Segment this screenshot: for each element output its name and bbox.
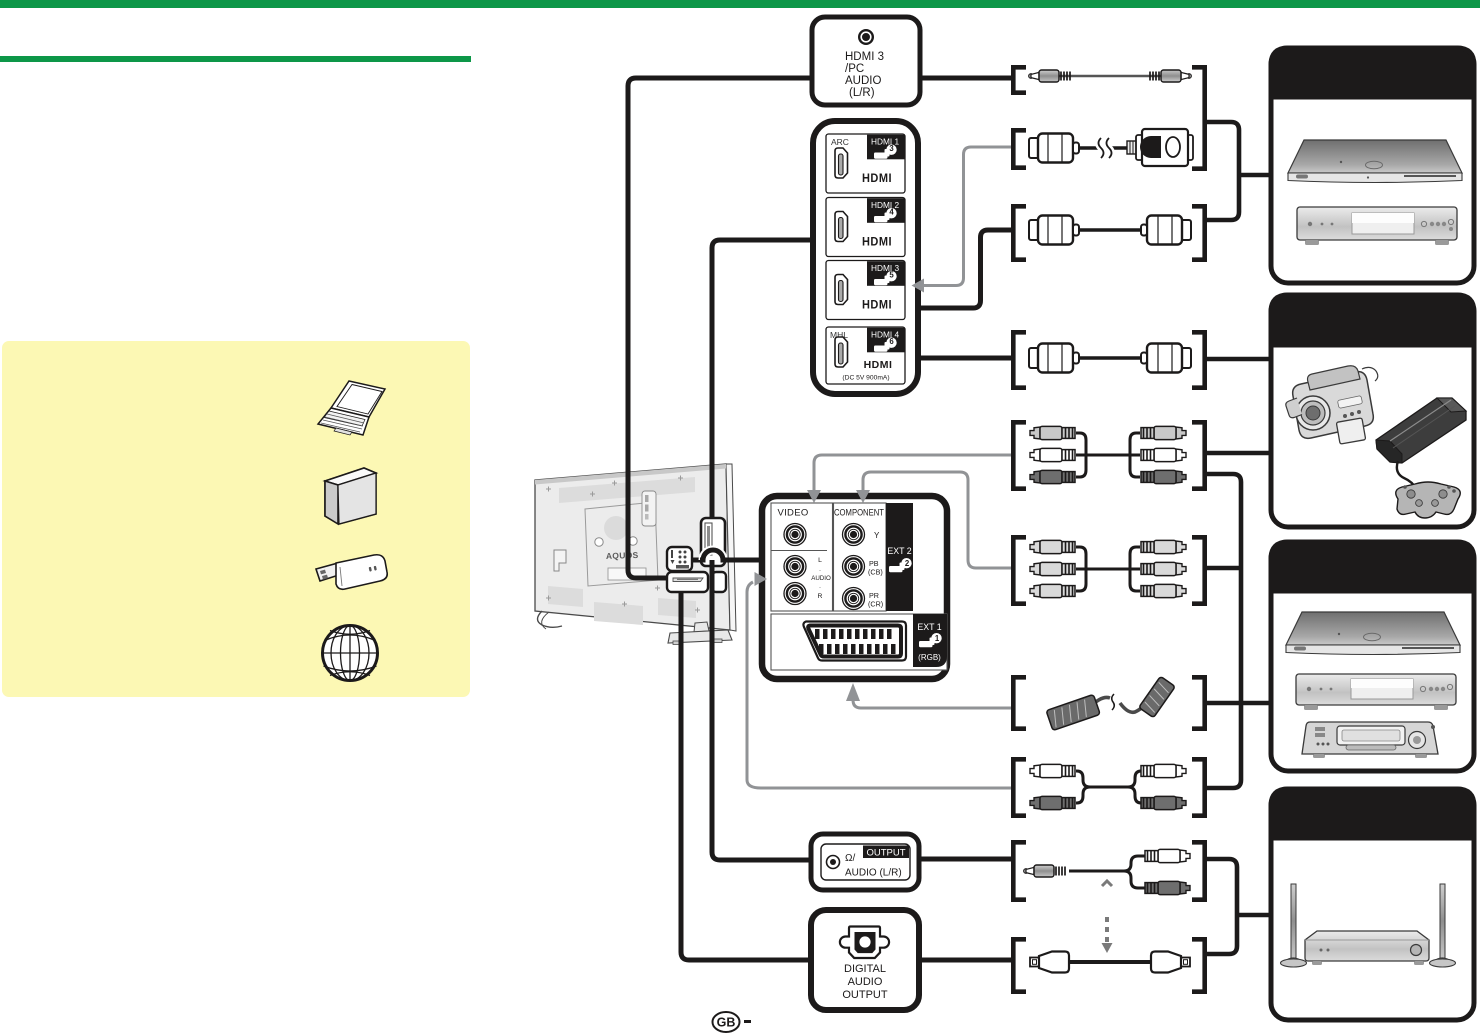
svg-text:HDMI 2: HDMI 2 xyxy=(871,200,900,210)
zoom boxes on TV xyxy=(667,518,726,592)
svg-text:(RGB): (RGB) xyxy=(918,653,941,662)
svg-text:/PC: /PC xyxy=(845,63,864,75)
cable1+2 right tall xyxy=(1192,67,1205,168)
svg-text:HDMI: HDMI xyxy=(862,173,892,185)
svg-text:6: 6 xyxy=(889,337,894,346)
cable5 left/right xyxy=(1013,422,1026,488)
controller xyxy=(1396,482,1461,518)
svg-text:AUDIO (L/R): AUDIO (L/R) xyxy=(845,868,902,879)
cable2 left xyxy=(1013,130,1026,167)
sub box HDMI4 xyxy=(826,327,905,384)
svg-text:GB: GB xyxy=(717,1016,736,1030)
svg-text:(L/R): (L/R) xyxy=(849,87,875,99)
right speaker xyxy=(1430,884,1456,967)
cable1 left xyxy=(1013,67,1026,92)
svg-text:OUTPUT: OUTPUT xyxy=(866,848,905,859)
cable10 left/right xyxy=(1013,939,1026,991)
wire A : HDMI3/PC AUDIO down to TV bottom box xyxy=(628,78,812,578)
tv side connector strip xyxy=(642,491,656,526)
camcorder xyxy=(1286,366,1378,444)
cable5 -> VIDEO xyxy=(814,455,1012,491)
EXT1 row xyxy=(771,614,947,670)
wire: pcaudio box to bracket1 xyxy=(920,76,1012,81)
center unit xyxy=(1305,931,1429,965)
svg-text:R: R xyxy=(818,593,823,600)
blu-ray player xyxy=(1286,612,1460,655)
cable2 -> HDMI3 xyxy=(923,147,1012,286)
svg-text:HDMI 3: HDMI 3 xyxy=(871,263,900,273)
svg-text:·: · xyxy=(819,567,821,574)
video column xyxy=(771,503,833,611)
cable3 left/right xyxy=(1013,206,1026,259)
svg-text:HDMI: HDMI xyxy=(862,236,892,248)
svg-text:2: 2 xyxy=(905,559,910,568)
vcr xyxy=(1302,722,1438,758)
svg-text:EXT 2: EXT 2 xyxy=(887,546,911,556)
svg-text:L: L xyxy=(818,557,822,564)
sub box HDMI3 xyxy=(826,261,905,320)
wire B segment over boxes xyxy=(710,560,715,600)
svg-text:1: 1 xyxy=(935,634,940,643)
svg-text:HDMI: HDMI xyxy=(864,359,893,371)
svg-text:AQUOS: AQUOS xyxy=(606,550,639,561)
cable7 -> EXT1 xyxy=(853,698,1012,708)
svg-text:VIDEO: VIDEO xyxy=(777,508,808,519)
cable8 -> EXT2 audio xyxy=(747,582,1012,788)
cable6 left/right xyxy=(1013,537,1026,603)
svg-text:AUDIO: AUDIO xyxy=(848,976,883,988)
svg-text:COMPONENT: COMPONENT xyxy=(834,508,884,518)
blu-ray player xyxy=(1288,140,1462,183)
sub box HDMI2 xyxy=(826,198,905,257)
cable6 -> COMPONENT xyxy=(863,472,1012,568)
green section rule xyxy=(0,56,471,62)
globe icon xyxy=(323,626,378,681)
svg-text:DIGITAL: DIGITAL xyxy=(844,963,886,975)
svg-text:EXT 1: EXT 1 xyxy=(917,622,941,632)
wire B : HDMI panel to OUTPUT box xyxy=(712,240,813,860)
svg-text:HDMI 4: HDMI 4 xyxy=(871,330,900,340)
component column xyxy=(834,503,887,611)
dvd player xyxy=(1297,207,1457,245)
cable9 left/right xyxy=(1013,842,1026,899)
svg-text:(CR): (CR) xyxy=(868,600,883,609)
svg-text:AUDIO: AUDIO xyxy=(845,75,881,87)
wire D : TV to EXT2 panel with hump xyxy=(692,558,703,563)
svg-text:(DC 5V 900mA): (DC 5V 900mA) xyxy=(842,375,889,382)
svg-text:HDMI: HDMI xyxy=(862,299,892,311)
cable8 left/right xyxy=(1013,759,1026,815)
gray leader lines xyxy=(747,147,1012,788)
laptop icon xyxy=(318,381,385,435)
left speaker xyxy=(1281,884,1307,967)
scart connector xyxy=(803,622,906,661)
svg-text:(CB): (CB) xyxy=(868,568,883,577)
svg-text:Y: Y xyxy=(874,531,880,540)
svg-text:HDMI 3: HDMI 3 xyxy=(845,51,884,63)
external hdd icon xyxy=(325,468,376,524)
usb dongle icon xyxy=(316,555,387,590)
svg-text:·: · xyxy=(819,584,821,591)
gray arrowheads on top xyxy=(755,279,925,702)
svg-text:ARC: ARC xyxy=(831,137,849,147)
EXT2 black band xyxy=(886,503,913,611)
cable7 left/right xyxy=(1013,677,1026,728)
dvd recorder xyxy=(1296,674,1456,710)
ps3 console xyxy=(1376,398,1466,489)
cable4 left/right xyxy=(1013,332,1026,387)
GB mark xyxy=(713,1012,752,1032)
svg-text:AUDIO: AUDIO xyxy=(811,575,831,582)
wire C : TV bottom box to DIGITAL AUDIO OUTPUT xyxy=(681,590,811,960)
sub box HDMI1 xyxy=(826,134,905,193)
svg-text:HDMI 1: HDMI 1 xyxy=(871,137,900,147)
svg-text:Ω/: Ω/ xyxy=(845,853,855,864)
svg-text:5: 5 xyxy=(889,271,894,280)
svg-text:OUTPUT: OUTPUT xyxy=(842,989,888,1001)
svg-text:4: 4 xyxy=(889,208,894,217)
black wires at HDMI panel right xyxy=(918,356,1012,361)
svg-text:3: 3 xyxy=(889,144,894,153)
